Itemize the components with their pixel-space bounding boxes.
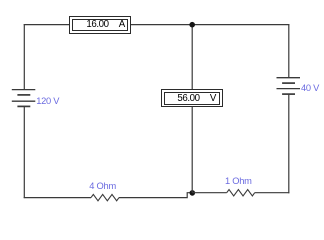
wire right vertical lower (corner up to battery V2) — [288, 94, 290, 193]
wire middle vertical lower (voltmeter to bottom node) — [191, 107, 193, 193]
node bottom junction — [190, 190, 196, 196]
resistor R1 zigzag — [91, 194, 119, 200]
wire top-left (left corner to ammeter) — [24, 24, 70, 26]
battery V1 plates — [12, 90, 36, 107]
wire bottom-right (node to resistor R2) — [192, 192, 226, 194]
battery V2 plates — [277, 78, 301, 94]
svg-text:120 V: 120 V — [36, 96, 60, 106]
node top junction — [189, 22, 195, 28]
wire left vertical lower (battery V1 down to bottom-left corner) — [23, 106, 25, 198]
svg-text:40 V: 40 V — [301, 83, 320, 93]
svg-text:4 Ohm: 4 Ohm — [89, 181, 116, 191]
voltmeter M2 box — [162, 90, 223, 107]
wire middle vertical upper (top node to voltmeter) — [191, 25, 193, 90]
svg-text:A: A — [119, 19, 126, 30]
wire right vertical upper (battery V2 up to top-right corner) — [288, 24, 290, 78]
wire bottom-left (corner to resistor R1) — [24, 197, 91, 199]
wire left vertical upper (corner down to battery V1) — [23, 24, 25, 90]
ammeter M1 box — [70, 17, 131, 34]
resistor R2 zigzag — [227, 190, 255, 196]
wire top-right (ammeter to top-right corner, through node) — [131, 24, 290, 26]
svg-text:56.00: 56.00 — [177, 93, 200, 104]
svg-text:V: V — [210, 93, 217, 104]
svg-text:16.00: 16.00 — [86, 19, 109, 30]
wire bottom-left (resistor R1 to step up and bottom node) — [119, 193, 192, 198]
wire bottom-right (resistor R2 to bottom-right corner) — [255, 192, 290, 194]
svg-text:1 Ohm: 1 Ohm — [225, 176, 252, 186]
